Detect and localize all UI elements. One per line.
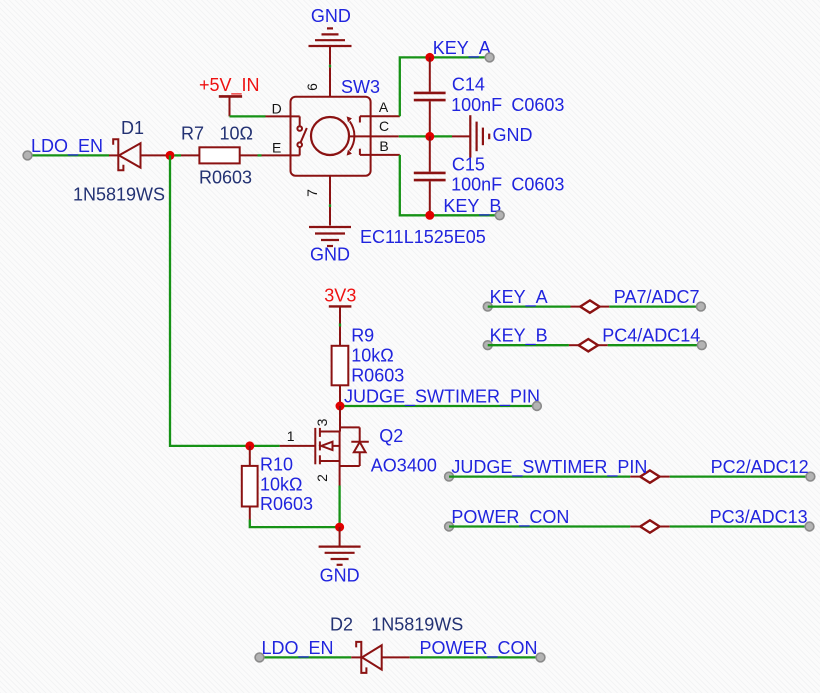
svg-text:C0603: C0603 [511,174,564,194]
node row POWER_CON to PC3/ADC13 [445,507,814,533]
transistor Q2 AO3400 [280,406,437,486]
wire C net to GND [399,135,452,137]
svg-text:10kΩ: 10kΩ [260,475,302,495]
svg-text:R0603: R0603 [199,168,252,188]
pin B [359,149,361,155]
node KEY_B dangling end [483,341,492,350]
svg-text:AO3400: AO3400 [371,456,437,476]
svg-text:+5V_IN: +5V_IN [199,75,260,96]
node PA7/ADC7 dangling end [697,302,706,311]
svg-text:POWER_CON: POWER_CON [451,507,569,528]
wire POWER_CON [449,525,630,527]
wire R7 to pin E [258,154,262,156]
wire KEY_A [488,305,571,307]
node row KEY_B to PC4/ADC14 [483,326,706,352]
svg-text:100nF: 100nF [451,95,502,115]
wire KEY_A net [400,57,490,116]
ground GND below SW3 [309,207,351,265]
wire +5V_IN to pin D [230,115,266,117]
resistor R9 [332,326,405,407]
capacitor C15 [414,136,565,215]
svg-text:C15: C15 [452,155,485,175]
power flag +5V_IN [199,75,260,116]
svg-text:PC4/ADC14: PC4/ADC14 [602,326,700,346]
svg-text:C: C [379,118,389,134]
diode D2 1N5819WS [330,615,463,673]
net label LDO_EN [23,136,103,160]
svg-text:D1: D1 [121,118,144,138]
wire LDO_EN to D1 [28,154,110,156]
svg-text:R9: R9 [351,326,374,346]
ground GND right (sideways) [452,115,533,157]
wire R10 to GND [250,520,340,528]
gate pin 1 [280,445,316,447]
svg-text:EC11L1525E05: EC11L1525E05 [360,227,486,247]
net tie diamond [640,520,659,532]
svg-text:PA7/ADC7: PA7/ADC7 [614,287,700,307]
wire LDO_EN to D2 [260,656,352,658]
wire GND to pin 6 [329,65,331,68]
svg-text:A: A [379,99,389,115]
rotation arc [350,121,355,150]
svg-text:LDO_EN: LDO_EN [262,638,334,659]
pin 6 [329,67,331,96]
svg-text:KEY_A: KEY_A [490,287,548,308]
wire PC3/ADC13 [660,526,670,528]
svg-text:3: 3 [314,418,330,426]
pin C [349,135,399,137]
net label KEY_A [433,38,494,62]
svg-text:GND: GND [320,566,360,586]
net tie diamond [580,300,599,312]
capacitor C14 [414,57,565,136]
node PC3/ADC13 dangling end [805,522,814,531]
ground GND bottom [319,527,361,585]
junction KEY_B/C15 [425,211,434,220]
wire D2 to POWER_CON [410,656,541,658]
wire KEY_B [488,344,569,346]
svg-text:JUDGE_SWTIMER_PIN: JUDGE_SWTIMER_PIN [451,457,647,478]
svg-text:6: 6 [304,83,320,91]
svg-text:2: 2 [314,474,330,482]
wire JUDGE_SWTIMER_PIN [449,475,630,477]
svg-text:E: E [272,140,281,156]
node row JUDGE_SWTIMER_PIN to PC2/ADC12 [445,457,815,483]
wire PC4/ADC14 [598,344,608,346]
svg-text:R7: R7 [181,124,204,144]
svg-text:KEY_A: KEY_A [433,38,491,59]
svg-text:KEY_B: KEY_B [443,196,501,217]
svg-text:7: 7 [304,189,320,197]
node POWER_CON dangling end [445,522,454,531]
node PC2/ADC12 dangling end [806,472,815,481]
pin E [262,154,300,156]
wire 3V3 to R9 [339,324,341,327]
svg-text:LDO_EN: LDO_EN [31,136,103,157]
pin D [266,115,300,117]
rotor circle [311,117,349,155]
svg-text:R10: R10 [260,455,293,475]
junction gate/R10 [245,441,254,450]
pin A [359,116,361,122]
svg-text:D: D [272,101,282,117]
body SW3 [291,97,371,176]
resistor R10 [242,446,313,520]
net label JUDGE_SWTIMER_PIN [344,387,541,411]
svg-text:PC3/ADC13: PC3/ADC13 [710,507,808,527]
svg-text:3V3: 3V3 [324,286,356,306]
svg-text:1: 1 [287,428,295,444]
wire Q2 source to GND [338,486,340,528]
svg-text:R0603: R0603 [260,494,313,514]
svg-text:10kΩ: 10kΩ [351,346,393,366]
svg-text:R0603: R0603 [351,366,404,386]
ground GND top [309,6,352,65]
diode D1 1N5819WS [73,118,166,205]
junction KEY_A/C14 [425,53,434,62]
wire PA7/ADC7 [600,306,610,308]
wire KEY_B net [400,155,500,215]
node PC4/ADC14 dangling end [697,341,706,350]
node KEY_A dangling end [483,302,492,311]
junction C14/C15 node [425,132,434,141]
svg-text:C14: C14 [452,75,485,95]
svg-text:GND: GND [310,245,350,265]
net tie diamond [640,470,659,482]
resistor R7 [174,124,257,188]
wire PC2/ADC12 [660,476,670,478]
svg-text:100nF: 100nF [451,174,502,194]
node row KEY_A to PA7/ADC7 [483,287,705,313]
svg-text:B: B [379,138,388,154]
svg-text:KEY_B: KEY_B [490,326,548,347]
svg-text:GND: GND [311,6,351,26]
net label POWER_CON bottom [420,638,545,662]
svg-text:Q2: Q2 [379,426,403,446]
switch contacts D/E [297,116,306,155]
node JUDGE_SWTIMER_PIN dangling end [445,472,454,481]
pin 7 [329,176,331,205]
svg-text:JUDGE_SWTIMER_PIN: JUDGE_SWTIMER_PIN [344,387,540,408]
net label KEY_B [443,196,504,220]
svg-text:D2: D2 [330,615,353,635]
svg-text:1N5819WS: 1N5819WS [73,185,165,205]
svg-text:C0603: C0603 [511,95,564,115]
wire pin7 to GND [329,204,331,207]
rotary encoder SW3 [262,67,486,247]
wire gate net [170,155,280,446]
svg-text:GND: GND [493,125,533,145]
net label LDO_EN bottom [255,638,333,662]
svg-text:PC2/ADC12: PC2/ADC12 [711,457,809,477]
net tie diamond [579,339,598,351]
svg-text:SW3: SW3 [341,77,380,97]
junction D1/R7 node [166,151,175,160]
power flag 3V3 [324,286,356,324]
junction source/R10/GND [335,523,344,532]
junction R9/Q2 drain [336,402,345,411]
svg-text:10Ω: 10Ω [220,124,253,144]
svg-text:POWER_CON: POWER_CON [420,638,538,659]
wire JUDGE_SWTIMER_PIN [340,405,537,407]
svg-text:1N5819WS: 1N5819WS [371,615,463,635]
